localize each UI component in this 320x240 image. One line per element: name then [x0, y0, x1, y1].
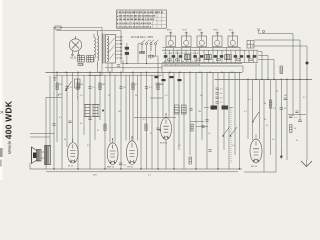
wave switch label row: [57, 95, 203, 97]
svg-text:0,1: 0,1: [149, 87, 152, 89]
svg-text:0,1: 0,1: [59, 117, 62, 119]
svg-text:k 1,6 2,0 4,1 1,7 6,0 55 7,4 3: k 1,6 2,0 4,1 1,7 6,0 55 7,4 36 10 0,9: [117, 22, 152, 25]
wire: capacitor leads: [126, 43, 128, 64]
IF strip bottom rail wire: [162, 63, 258, 64]
svg-text:0,1: 0,1: [143, 119, 146, 121]
svg-text:V EF13 ECH11 EBF11 EF11 EL11 A: V EF13 ECH11 EBF11 EF11 EL11 AZ11 EM11 W: [117, 11, 163, 14]
wire: chevron stem: [306, 160, 308, 166]
wire: mixer grid net: [156, 117, 208, 126]
switch gang dashed link S2: [230, 108, 232, 164]
AF valve V8 EF11: [107, 143, 118, 165]
svg-text:5k: 5k: [124, 87, 126, 89]
svg-text:0,1: 0,1: [244, 111, 247, 113]
switch contact dots: [222, 135, 223, 136]
capacitor C15: [280, 108, 283, 110]
secondary bus wire: [88, 68, 162, 75]
band switch box right: [247, 41, 254, 49]
value labels right column: [264, 103, 297, 130]
tone switch S2: [223, 127, 237, 136]
rectifier valve AZ11: [69, 36, 81, 56]
resistor R5: [99, 83, 101, 90]
svg-text:1M 0,1 50k 2M 0,5 100 0,1 25 5: 1M 0,1 50k 2M 0,5 100 0,1 25 5k 0,2 70 3…: [164, 65, 200, 67]
heater bus wire: [163, 47, 241, 48]
capacitor C16: [289, 116, 302, 122]
junction dots on main bus: [56, 72, 232, 73]
IF strip top rail wire: [162, 49, 258, 51]
wire: mixer grid horizontal extension: [134, 116, 156, 118]
svg-text:EF 11: EF 11: [128, 166, 134, 168]
wire: bottom earth rail: [30, 168, 242, 170]
wire: pot slider: [204, 107, 233, 109]
junction dot oscillator: [159, 129, 161, 131]
svg-text:g 225 100 96 210 245 250 2x300: g 225 100 96 210 245 250 2x300 65 4 28: [117, 15, 156, 18]
svg-text:1M: 1M: [118, 111, 121, 113]
main distribution bus wire: [46, 71, 243, 73]
pickup arrow symbol: [280, 149, 282, 157]
svg-text:2M: 2M: [59, 84, 62, 86]
capacitor C8: [145, 87, 148, 89]
wire: AF input from left edge: [30, 134, 54, 138]
resistor R16: [104, 124, 106, 131]
left margin registration mark: [1, 111, 4, 114]
wire: centre vertical risers: [163, 72, 240, 169]
junction dots on right bus: [247, 79, 307, 80]
svg-text:0,1: 0,1: [80, 95, 83, 97]
resistor R6: [132, 83, 134, 90]
heater pilot lamp symbols above valves: [169, 32, 234, 37]
svg-text:25: 25: [220, 102, 222, 104]
capacitor C21: [88, 118, 91, 120]
output valve V9 EL11: [67, 143, 78, 163]
IF strip tie wires: [166, 48, 258, 63]
svg-text:4697: 4697: [93, 175, 97, 177]
antenna trimmer cluster top right: [257, 29, 265, 34]
IF coil block L3a: [225, 55, 231, 60]
capacitor C26: [295, 111, 298, 113]
mains transformer Tr1 secondary windings: [106, 35, 121, 64]
svg-text:2k: 2k: [135, 95, 137, 97]
junction node HT: [306, 62, 309, 65]
wire loop: AVC net L2: [255, 40, 301, 79]
capacitor C23: [201, 126, 204, 128]
wire: transformer drops to bus: [98, 60, 163, 72]
capacitor C20: [68, 121, 71, 123]
wire: left vertical risers: [46, 72, 158, 169]
electrolytic capacitor C4: [87, 56, 94, 63]
switch gang dashed link: [150, 40, 152, 59]
svg-text:EF11: EF11: [214, 30, 218, 32]
svg-text:0,1 60 25 0,1 8k: 0,1 60 25 0,1 8k 50 0,5 2k: [164, 61, 197, 63]
relay box K1: [75, 79, 81, 88]
svg-text:25: 25: [276, 91, 278, 93]
junction dots valve caps: [112, 113, 167, 139]
switch contact dot S3: [252, 121, 253, 122]
svg-text:1M: 1M: [200, 95, 203, 97]
resistor R14: [290, 125, 292, 133]
svg-text:0,1: 0,1: [294, 117, 297, 119]
svg-text:0,1: 0,1: [248, 99, 251, 101]
valve designator labels: [167, 30, 233, 32]
output transformer Tr2: [45, 146, 51, 165]
mixer valve V6 ECH11: [161, 118, 172, 140]
junction dots on earth rail: [53, 168, 240, 169]
chassis bus right wire: [215, 78, 313, 80]
svg-text:0,1: 0,1: [272, 139, 275, 141]
svg-text:50k: 50k: [198, 111, 201, 113]
transformer core: [103, 34, 105, 64]
paper background: [0, 0, 320, 180]
IF transformer can L5: [85, 105, 98, 117]
heater string valve box V1 screen: [166, 36, 176, 47]
smoothing capacitor C1: [125, 47, 129, 50]
svg-text:25: 25: [108, 95, 110, 97]
resistor R18: [191, 124, 193, 131]
tone capacitor C14: [222, 106, 229, 110]
heater string valve box V4 screen: [213, 36, 223, 47]
svg-text:6k: 6k: [64, 139, 66, 141]
scan edge mark bottom-left: [0, 148, 3, 157]
svg-text:AZ 11: AZ 11: [70, 57, 77, 60]
svg-text:0,1: 0,1: [232, 145, 235, 147]
wire: IF out corners: [256, 52, 274, 80]
capacitor C5: [65, 87, 68, 89]
cathode resistor R15: [189, 157, 191, 164]
second primary winding column: [94, 34, 96, 62]
svg-text:0,1: 0,1: [148, 175, 151, 177]
volume potentiometer P1: [211, 106, 218, 110]
value labels capacitor bank: [220, 89, 223, 105]
loudspeaker LS: [32, 147, 42, 164]
wire: bottom return rail: [46, 171, 276, 173]
wire: detector net: [288, 114, 306, 116]
capacitor C22: [156, 128, 159, 130]
resistor R2: [149, 55, 154, 57]
IF coil block L2b: [205, 55, 211, 60]
resistor R17: [145, 124, 147, 131]
svg-text:0,5: 0,5: [208, 133, 211, 135]
svg-text:25: 25: [150, 133, 152, 135]
capacitor C9: [117, 65, 120, 67]
horizontal wire segment grid net: [46, 98, 164, 117]
svg-text:1M: 1M: [102, 84, 105, 86]
svg-text:EF 13: EF 13: [251, 166, 258, 168]
svg-text:50 0,1 2M 50 1M 0,1 70 50k 0,1: 50 0,1 2M 50 1M 0,1 70 50k 0,1 5k 100 0,…: [164, 53, 200, 55]
svg-text:50k: 50k: [80, 84, 83, 86]
svg-text:ECH: ECH: [183, 30, 188, 32]
svg-text:400 WDK: 400 WDK: [4, 101, 14, 139]
svg-text:s 0,9 2,2 0,2 5,3 36 4,2 1,0 6: s 0,9 2,2 0,2 5,3 36 4,2 1,0 62 25 1,4: [117, 25, 152, 28]
svg-text:0,1: 0,1: [70, 87, 73, 89]
resistor R4: [77, 83, 79, 90]
svg-text:0,2: 0,2: [87, 145, 90, 147]
mains transformer Tr1 primary winding: [98, 31, 99, 66]
wire loop: anode net L3: [252, 46, 307, 79]
svg-text:0,1: 0,1: [165, 95, 168, 97]
smoothing capacitor C2: [125, 52, 129, 55]
svg-text:0,1 50 2M: 0,1 50 2M: [155, 84, 164, 86]
svg-text:0,1: 0,1: [93, 87, 96, 89]
coupling capacitor bank C13: [215, 88, 218, 103]
electrolytic capacitor C3: [78, 56, 85, 63]
svg-text:EF13: EF13: [167, 30, 172, 32]
trimmer node dot: [102, 110, 104, 112]
svg-text:220V: 220V: [58, 94, 63, 96]
oscillator coil L6: [175, 105, 187, 114]
svg-text:Mende: Mende: [7, 140, 12, 154]
RF valve V10 EF13: [250, 139, 262, 163]
svg-text:EL11: EL11: [229, 30, 233, 32]
resistor R12: [280, 66, 283, 74]
svg-text:0,1: 0,1: [273, 108, 276, 110]
svg-text:50: 50: [284, 108, 286, 110]
terminal stack mains: [53, 78, 56, 81]
resistor R8: [78, 64, 83, 66]
resistor R3: [56, 83, 58, 90]
svg-text:0,1: 0,1: [220, 89, 223, 91]
value labels right cluster: [244, 91, 306, 121]
tube data table: [117, 10, 167, 28]
svg-text:0,1: 0,1: [178, 145, 181, 147]
mains lead top wire: [57, 31, 163, 64]
wire loop: feedback net L1: [259, 34, 293, 80]
wave change switch S3: [253, 112, 259, 121]
svg-text:0,5: 0,5: [135, 84, 138, 86]
IF strip return rail wire: [162, 66, 243, 72]
wire: switch area drops: [138, 44, 159, 64]
secondary tap junctions: [121, 36, 123, 59]
capacitor C24: [208, 150, 211, 152]
pickup arrowhead: [280, 156, 283, 159]
heater string valve box V3 screen: [197, 36, 207, 47]
power supply enclosure box: [54, 28, 102, 76]
svg-text:50: 50: [264, 119, 266, 121]
svg-text:0,1: 0,1: [124, 165, 127, 167]
svg-text:EL 11: EL 11: [68, 166, 74, 168]
svg-text:0,2: 0,2: [220, 98, 223, 100]
IF strip capacitors main row: [164, 55, 256, 58]
junction dots mains line: [120, 43, 147, 64]
svg-text:110 125 220 V~ 50Hz: 110 125 220 V~ 50Hz: [131, 37, 154, 39]
svg-text:0,1: 0,1: [303, 97, 306, 99]
svg-text:a 100 100 96 105 245 250 60 0,: a 100 100 96 105 245 250 60 0,2 5 36 8: [117, 18, 155, 21]
heater string valve box V5 screen: [228, 36, 238, 47]
capacitor C7: [119, 87, 122, 89]
capacitor C19: [205, 120, 208, 122]
voltage selector switch S1 contacts: [141, 40, 159, 45]
dashed link K1: [76, 88, 78, 100]
mains switch S4: [66, 82, 72, 90]
IF strip resistors secondary row: [168, 59, 253, 61]
svg-text:1M: 1M: [264, 103, 267, 105]
svg-text:50: 50: [220, 93, 222, 95]
speaker magnet: [33, 153, 37, 159]
aerial earth chevron: [301, 161, 312, 167]
fuse F1: [54, 26, 63, 29]
capacitor C25: [284, 98, 288, 100]
wire: speaker leads: [30, 152, 45, 169]
capacitor C18: [52, 124, 55, 126]
svg-text:2k: 2k: [97, 130, 99, 132]
svg-text:50: 50: [296, 140, 298, 142]
heater string valve box V2 screen: [182, 36, 192, 47]
svg-text:50: 50: [80, 123, 82, 125]
capacitor C6: [88, 87, 91, 89]
padder capacitor C12: [189, 109, 192, 111]
resistor R13: [269, 100, 271, 108]
component cluster below bus left: [155, 76, 182, 81]
grid capacitor C17: [119, 163, 122, 165]
table cell text: tube chart values: [117, 11, 163, 28]
svg-text:ECH 11: ECH 11: [160, 142, 168, 144]
value labels mid row: [59, 84, 162, 89]
svg-text:2M: 2M: [284, 95, 287, 97]
resistor R7: [157, 83, 159, 90]
IF coil block L2a: [185, 55, 191, 60]
switch dot S4: [65, 89, 67, 91]
resistor R1: [140, 52, 145, 54]
wire: valve top cap leads: [73, 114, 256, 143]
IF strip value labels: [164, 53, 201, 67]
svg-text:5k: 5k: [294, 128, 296, 130]
scattered value labels lower half: [59, 95, 298, 147]
svg-text:30: 30: [266, 125, 268, 127]
wire: right vertical risers: [248, 79, 307, 172]
IF valve V7: [127, 141, 138, 165]
svg-text:EBF 11: EBF 11: [107, 166, 115, 168]
